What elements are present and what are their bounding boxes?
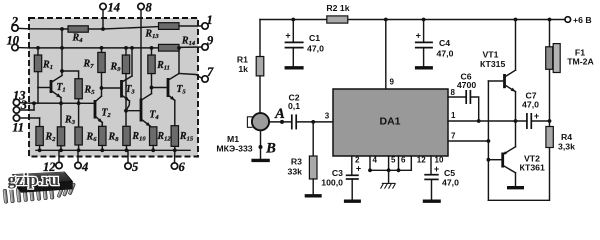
- pin 3 terminal: [13, 107, 19, 113]
- node R15 bottom: [174, 146, 176, 150]
- svg-text:МКЭ-333: МКЭ-333: [216, 144, 252, 154]
- node T3 base tap: [100, 86, 104, 90]
- pin 6 terminal: [171, 163, 177, 169]
- transistor VT2: [501, 153, 504, 168]
- wire DA1 pin2 to C3: [351, 156, 353, 175]
- svg-text:R4: R4: [561, 132, 572, 142]
- svg-text:9: 9: [390, 78, 395, 87]
- svg-text:DA1: DA1: [379, 116, 400, 128]
- node R12 bottom: [152, 146, 154, 151]
- resistor R2: [36, 127, 43, 146]
- wire pin10 rail: [29, 47, 159, 49]
- wire DA1 pin4: [369, 156, 371, 170]
- resistor R12: [150, 127, 157, 146]
- svg-text:47,0: 47,0: [307, 44, 324, 54]
- svg-text:14: 14: [108, 1, 121, 15]
- svg-text:C4: C4: [439, 38, 450, 48]
- node C6 to pin1 wire: [477, 119, 481, 123]
- node VT1 collector tap: [514, 18, 518, 22]
- fuse F1 capsule: [549, 20, 551, 122]
- wire DA1 pin12: [410, 156, 412, 170]
- node R2 bottom: [39, 146, 41, 151]
- node R9 top: [124, 46, 128, 50]
- svg-text:8: 8: [451, 88, 456, 97]
- resistor R5: [75, 79, 82, 99]
- svg-text:3,3k: 3,3k: [558, 142, 575, 152]
- resistor R2 1k: [327, 16, 348, 23]
- node T1 collector crossing: [60, 46, 64, 50]
- svg-text:C1: C1: [309, 33, 320, 43]
- wire base column VT1-VT2: [487, 81, 489, 200]
- resistor R10: [123, 126, 130, 145]
- wire T1 base riser: [37, 88, 39, 104]
- ground bar VT2: [507, 186, 524, 189]
- svg-text:+: +: [434, 164, 439, 174]
- svg-text:R1: R1: [237, 55, 248, 65]
- svg-text:100,0: 100,0: [321, 178, 343, 188]
- node pin7 junction: [487, 139, 491, 143]
- wire DA1 pin9: [385, 20, 387, 90]
- pin 4 terminal: [75, 162, 81, 168]
- resistor R4: [68, 26, 88, 32]
- op-amp DA1: [333, 89, 448, 156]
- node R8 bottom: [101, 146, 103, 151]
- transistor T5: [167, 78, 170, 97]
- wire R14 to T5 collector: [178, 48, 180, 74]
- transistor T4: [140, 99, 143, 122]
- wire DA1 pin10 to C5: [430, 156, 432, 175]
- terminal +6V: [565, 17, 571, 23]
- wire bottom return to R4: [488, 148, 549, 201]
- svg-text:1: 1: [207, 13, 213, 27]
- node pin3 riser: [32, 101, 36, 105]
- pin 9 terminal: [202, 44, 208, 50]
- pin 2 terminal: [12, 25, 18, 31]
- svg-text:12: 12: [417, 155, 426, 164]
- wire pin3 riser: [33, 103, 35, 110]
- wire input rail pin13 to T2 base: [29, 102, 95, 104]
- node A terminal: [280, 120, 284, 124]
- wire T1 collector column: [61, 29, 63, 75]
- resistor R3 33k: [312, 122, 314, 156]
- pin 11 terminal: [13, 115, 19, 121]
- svg-text:М1: М1: [227, 134, 239, 144]
- svg-text:gzip.ru: gzip.ru: [8, 170, 59, 189]
- wire R1 to microphone: [259, 76, 261, 113]
- ground bar C1: [285, 66, 304, 69]
- svg-text:+: +: [416, 31, 421, 41]
- node R1 top: [36, 46, 40, 50]
- node T3 collector top: [130, 46, 134, 50]
- wire T3 collector riser: [131, 48, 133, 76]
- resistor R9: [122, 55, 129, 74]
- svg-text:C3: C3: [332, 168, 343, 178]
- capacitor C2: [291, 114, 293, 129]
- svg-text:47,0: 47,0: [442, 178, 459, 188]
- wire pin2 to R4: [29, 28, 68, 30]
- svg-text:0,1: 0,1: [288, 101, 300, 111]
- wire DA1 pin7 to base column: [448, 140, 488, 142]
- node DA1 pin9 tap: [384, 18, 388, 22]
- wire C7 to R4 F1 node: [531, 120, 549, 122]
- pin 8 terminal: [138, 3, 144, 9]
- svg-text:33k: 33k: [288, 167, 303, 177]
- pin 5 terminal: [125, 163, 131, 169]
- wire bottom rail: [36, 149, 190, 151]
- IC internal schematic gray body with dashed border: [29, 18, 198, 157]
- svg-text:7: 7: [451, 132, 456, 141]
- node VT2 base junction: [487, 158, 491, 162]
- svg-text:+6 В: +6 В: [573, 15, 592, 25]
- svg-text:6: 6: [179, 160, 186, 174]
- wire R4 to R13: [88, 27, 158, 29]
- svg-text:8: 8: [146, 1, 153, 15]
- svg-text:C5: C5: [444, 168, 455, 178]
- svg-text:VT1: VT1: [483, 50, 499, 60]
- resistor R1 1k: [256, 57, 264, 76]
- capacitor C1: [292, 20, 294, 43]
- wire pin11 drop to R2: [39, 118, 41, 127]
- svg-text:5: 5: [132, 160, 138, 174]
- pin 7 terminal: [202, 76, 208, 82]
- svg-text:3: 3: [20, 98, 27, 112]
- wire pins 4-5-6-12 tie: [370, 169, 411, 171]
- resistor R4 3,3k: [549, 121, 551, 127]
- svg-text:+: +: [534, 111, 539, 121]
- transistor T3: [120, 80, 123, 98]
- ground bar C5: [423, 199, 441, 202]
- resistor R13: [159, 23, 180, 30]
- svg-text:4: 4: [81, 160, 88, 174]
- node emitters junction: [514, 119, 518, 123]
- node F1 R4 junction: [548, 119, 552, 123]
- svg-text:6: 6: [401, 155, 406, 164]
- resistor R8: [99, 126, 106, 145]
- resistor R3: [60, 103, 62, 127]
- svg-text:КТ361: КТ361: [520, 163, 545, 173]
- node pin14 junction: [101, 27, 105, 31]
- wire +6V top rail: [260, 19, 565, 21]
- svg-text:B: B: [265, 141, 276, 157]
- node R3 tap: [311, 120, 315, 124]
- node F1 tap: [548, 18, 552, 22]
- svg-text:R2 1k: R2 1k: [326, 3, 349, 13]
- capacitor C7 47,0: [526, 113, 528, 129]
- transistor T1: [50, 80, 53, 93]
- svg-text:9: 9: [207, 34, 214, 48]
- wire DA1 pin5: [388, 156, 390, 170]
- wire DA1 pin8 to C6: [448, 96, 466, 98]
- node R3 bottom: [60, 146, 62, 151]
- microphone M1: [252, 113, 269, 130]
- capacitor C3 100,0: [346, 174, 359, 176]
- svg-text:+: +: [285, 31, 290, 41]
- resistor R15: [171, 126, 178, 147]
- node T1 emitter R3 junction: [59, 101, 63, 105]
- node C1 tap: [291, 18, 295, 22]
- transistor VT1: [503, 74, 506, 88]
- node R6 bottom: [78, 145, 80, 150]
- resistor R7: [98, 52, 105, 72]
- svg-text:47,0: 47,0: [437, 49, 454, 59]
- svg-text:4: 4: [373, 155, 378, 164]
- ground bar microphone: [251, 159, 269, 162]
- capacitor C4: [423, 20, 425, 43]
- wire microphone to C2: [269, 121, 292, 123]
- capacitor C6 4700: [465, 90, 467, 104]
- wire C2 to DA1 pin3: [296, 121, 333, 123]
- chip photo: [3, 172, 75, 203]
- svg-text:4700: 4700: [457, 80, 476, 90]
- transistor T2: [94, 100, 97, 119]
- pin 10 terminal: [12, 44, 18, 50]
- node R4 left / T1 collector column: [60, 27, 64, 31]
- svg-text:47,0: 47,0: [522, 100, 539, 110]
- svg-text:A: A: [274, 106, 285, 122]
- node C4 tap: [422, 18, 426, 22]
- resistor R6: [78, 103, 80, 127]
- svg-text:7: 7: [207, 65, 214, 79]
- svg-text:ТМ-2А: ТМ-2А: [567, 57, 594, 67]
- svg-text:11: 11: [12, 121, 24, 135]
- wire C6 to output node: [470, 97, 478, 121]
- node T4 base junction: [124, 109, 128, 113]
- pin 13 terminal: [13, 99, 19, 105]
- svg-text:3: 3: [325, 112, 330, 121]
- wire microphone B to ground: [260, 130, 262, 158]
- pin 1 terminal: [202, 23, 208, 29]
- resistor R14: [159, 44, 180, 51]
- node R10 bottom: [126, 146, 128, 151]
- node R11 top: [150, 46, 154, 50]
- chassis ground DA1: [388, 170, 390, 183]
- node R5 R6 junction: [77, 101, 81, 105]
- svg-text:2: 2: [11, 15, 18, 29]
- svg-text:1k: 1k: [238, 64, 248, 74]
- pin 14 terminal: [100, 3, 106, 9]
- pin 12 terminal: [56, 162, 62, 168]
- capacitor C5 47,0: [424, 174, 438, 176]
- svg-text:КТ315: КТ315: [480, 59, 505, 69]
- ground bar C4: [415, 66, 433, 69]
- resistor R11: [148, 55, 155, 74]
- svg-text:10: 10: [7, 34, 20, 48]
- svg-text:1: 1: [451, 111, 456, 120]
- node T5 base tap: [150, 86, 154, 90]
- svg-text:R3: R3: [291, 157, 302, 167]
- svg-text:5: 5: [391, 155, 396, 164]
- wire DA1 pin1 to C7: [448, 120, 527, 122]
- wire DA1 pin6: [398, 156, 400, 170]
- node R5 top tap on T1 collector: [60, 69, 64, 73]
- ground bar R3: [312, 179, 314, 194]
- svg-text:+: +: [356, 164, 361, 174]
- resistor R1: [34, 55, 41, 72]
- node B terminal: [259, 145, 263, 149]
- wire rail corner to R1: [259, 20, 261, 57]
- node R7 top: [100, 46, 104, 50]
- svg-text:10: 10: [435, 155, 444, 164]
- ground bar C3: [344, 199, 361, 202]
